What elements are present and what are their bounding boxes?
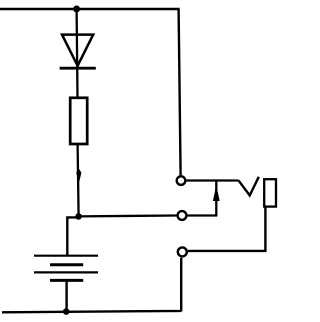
wire jack tip line [185, 179, 238, 181]
wire top rail [0, 8, 180, 11]
node bottom junction [63, 308, 70, 315]
wire junction to jack middle contact [79, 214, 177, 217]
jack terminal middle (switch) [178, 211, 187, 220]
arrow current-direction (down) [76, 168, 81, 183]
jack terminal top (tip) [177, 176, 186, 185]
wire bottom rail [2, 258, 181, 313]
wire right vertical drop [179, 9, 181, 175]
battery GB1 [34, 256, 98, 312]
jack terminal bottom (sleeve) [178, 247, 187, 256]
switch arrow (up) [213, 181, 220, 216]
wire junction to battery (jog left then down) [67, 217, 78, 255]
diode [60, 35, 96, 69]
node top junction [73, 6, 80, 13]
resistor [70, 98, 87, 144]
jack plug body [264, 179, 276, 206]
node lower-left junction [75, 213, 82, 220]
wire sleeve lead [188, 207, 265, 251]
wire middle contact to switch arrow [187, 214, 218, 216]
jack tip spring contact (V) [238, 177, 258, 196]
wire left branch (anode lead through diode, to resistor, to lower junction) [77, 9, 79, 216]
